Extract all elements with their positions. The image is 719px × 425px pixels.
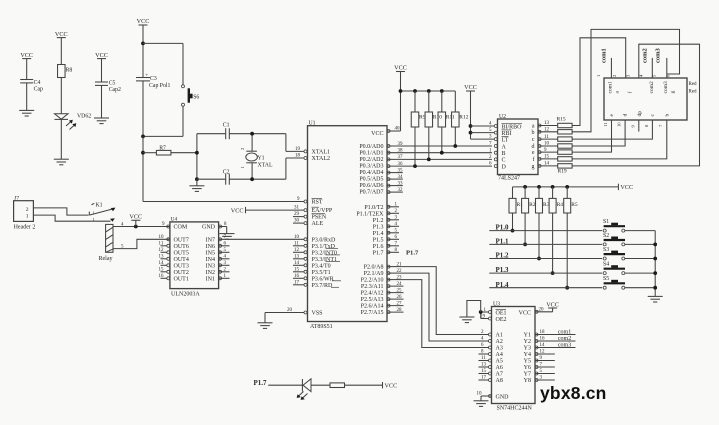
svg-text:14: 14 — [294, 261, 300, 266]
svg-text:Y1: Y1 — [524, 333, 531, 339]
svg-text:R10: R10 — [433, 115, 442, 121]
svg-text:P1.7: P1.7 — [254, 379, 268, 387]
svg-text:A5: A5 — [496, 359, 503, 365]
svg-text:EA/VPP: EA/VPP — [312, 208, 333, 214]
svg-text:VCC: VCC — [231, 207, 244, 214]
svg-text:VCC: VCC — [464, 84, 477, 91]
op-amp U3 SN74HC244N body — [492, 301, 536, 411]
svg-text:29: 29 — [294, 212, 300, 217]
svg-text:com1: com1 — [558, 329, 571, 335]
wire S6 bottom to reset node — [141, 135, 183, 139]
svg-text:BI/RBO: BI/RBO — [502, 124, 523, 130]
svg-text:R12: R12 — [459, 115, 468, 121]
svg-text:16: 16 — [540, 337, 546, 342]
svg-text:K1: K1 — [96, 202, 103, 208]
svg-text:13: 13 — [544, 121, 550, 126]
svg-text:Header 2: Header 2 — [14, 225, 36, 231]
svg-text:VCC: VCC — [371, 131, 383, 137]
svg-text:25: 25 — [397, 288, 403, 293]
resistor R9 — [411, 91, 425, 168]
svg-text:Y8: Y8 — [524, 378, 531, 384]
svg-text:74LS247: 74LS247 — [498, 176, 520, 182]
svg-text:R4: R4 — [557, 202, 564, 208]
svg-text:VCC: VCC — [620, 184, 633, 191]
svg-text:OE1: OE1 — [496, 310, 507, 316]
svg-text:R7: R7 — [159, 146, 166, 152]
svg-text:27: 27 — [397, 301, 403, 306]
svg-text:1: 1 — [26, 214, 29, 220]
power VCC (C4 branch) — [20, 52, 33, 80]
svg-text:14: 14 — [540, 343, 546, 348]
svg-text:VCC: VCC — [137, 18, 150, 25]
pin 9 RST wire — [143, 197, 307, 203]
svg-text:OUT3: OUT3 — [174, 263, 189, 269]
svg-text:10: 10 — [477, 392, 483, 397]
pins 21-28 P2 stubs — [387, 262, 404, 313]
svg-text:IN3: IN3 — [206, 263, 215, 269]
svg-text:com2: com2 — [649, 81, 655, 93]
svg-text:12: 12 — [544, 128, 550, 133]
svg-text:ULN2003A: ULN2003A — [171, 291, 200, 297]
pin 1 com1 top — [596, 74, 601, 77]
svg-text:P3.4/T0: P3.4/T0 — [312, 263, 331, 269]
svg-text:C3: C3 — [150, 76, 157, 82]
svg-text:com3: com3 — [663, 81, 669, 93]
resistor R5 — [564, 187, 578, 290]
capacitor C2 — [197, 170, 286, 185]
svg-text:9: 9 — [631, 125, 636, 128]
pins 9-16 ULN left — [159, 222, 170, 280]
pins A1-A8 inputs — [479, 330, 492, 381]
relay coil K1 Relay — [99, 224, 114, 262]
svg-text:R5: R5 — [571, 202, 578, 208]
svg-text:P0.0/AD0: P0.0/AD0 — [359, 144, 383, 150]
svg-text:34: 34 — [398, 175, 404, 180]
svg-text:R15: R15 — [557, 116, 566, 122]
svg-text:PSEN: PSEN — [312, 214, 327, 220]
ground (OE) — [459, 317, 474, 323]
svg-text:COM: COM — [174, 225, 188, 231]
svg-text:e: e — [609, 114, 615, 117]
svg-text:Cap2: Cap2 — [109, 87, 121, 93]
switch S4 — [603, 262, 655, 275]
svg-text:Cap: Cap — [34, 86, 43, 92]
svg-text:19: 19 — [295, 147, 301, 152]
svg-text:11: 11 — [544, 135, 549, 140]
resistor network R15-R19 — [557, 116, 573, 174]
pin 14 Y3 output — [535, 342, 576, 349]
wire segment f — [572, 120, 667, 159]
ground (U3 GND) — [474, 401, 489, 407]
svg-text:Red: Red — [689, 82, 698, 87]
svg-text:Red: Red — [689, 90, 698, 95]
svg-text:33: 33 — [398, 181, 404, 186]
svg-text:SN74HC244N: SN74HC244N — [497, 405, 533, 411]
pin 5 RBI wire — [471, 128, 498, 134]
pin 20 VCC wire — [535, 307, 553, 313]
svg-text:IN7: IN7 — [206, 237, 215, 243]
svg-text:13: 13 — [294, 255, 300, 260]
svg-text:U1: U1 — [309, 121, 316, 127]
svg-text:A2: A2 — [496, 339, 503, 345]
svg-text:+: + — [145, 72, 148, 78]
svg-text:S2: S2 — [603, 233, 609, 239]
svg-text:S6: S6 — [193, 94, 199, 100]
switch S3 — [603, 247, 655, 260]
svg-text:P3.6/WR: P3.6/WR — [312, 276, 334, 282]
svg-text:14: 14 — [544, 162, 550, 167]
svg-text:17: 17 — [294, 281, 300, 286]
svg-text:ALE: ALE — [312, 221, 324, 227]
svg-text:U4: U4 — [171, 217, 178, 223]
svg-text:16: 16 — [294, 274, 300, 279]
svg-text:S1: S1 — [603, 219, 609, 225]
power VCC (C5 branch) — [95, 52, 108, 82]
pins 35-32 P0.4-P0.7 stubs — [387, 168, 403, 193]
svg-text:P0.1/AD1: P0.1/AD1 — [359, 151, 383, 157]
display DS1 3-digit 7-segment — [604, 78, 697, 120]
connector J7 Header 2 — [14, 196, 36, 231]
pin 2 top stub — [611, 58, 617, 78]
svg-text:R11: R11 — [446, 115, 455, 121]
wire VCC rail (R9-R12) — [399, 89, 456, 93]
power VCC (U2 inputs) — [464, 84, 477, 139]
resistor R10 — [425, 91, 442, 161]
power VCC (relay coil) — [129, 214, 142, 227]
svg-text:com1: com1 — [600, 48, 607, 63]
svg-text:S3: S3 — [603, 247, 609, 253]
svg-text:Y3: Y3 — [524, 346, 531, 352]
svg-text:A: A — [502, 144, 507, 150]
switch S5 — [603, 276, 655, 289]
node reset-top junction — [141, 42, 183, 85]
svg-text:Y7: Y7 — [524, 372, 531, 378]
pin 9 Y5 output — [535, 356, 555, 362]
svg-text:28: 28 — [397, 308, 403, 313]
svg-text:VCC: VCC — [129, 214, 142, 221]
svg-text:P3.0/RxD: P3.0/RxD — [312, 237, 337, 243]
svg-text:C2: C2 — [223, 170, 230, 176]
power VCC (reset branch) — [137, 18, 150, 77]
svg-text:P2.7/A15: P2.7/A15 — [361, 310, 384, 316]
svg-text:LT: LT — [502, 137, 509, 143]
svg-text:OUT5: OUT5 — [174, 250, 189, 256]
svg-text:S4: S4 — [603, 262, 609, 268]
svg-text:R19: R19 — [558, 168, 567, 174]
svg-text:d: d — [532, 144, 535, 150]
pins 6-1 IN stubs — [219, 242, 230, 280]
LED (P1.7) — [297, 379, 330, 400]
svg-text:C5: C5 — [109, 81, 116, 87]
wire VCC rail (R1-R5) — [513, 185, 619, 189]
pin 31 EA wire — [246, 205, 308, 211]
resistor R2 — [522, 187, 536, 246]
wire segment a loop — [572, 38, 626, 126]
pin 3 LT wire — [471, 135, 498, 141]
svg-text:IN4: IN4 — [206, 257, 215, 263]
svg-text:C: C — [502, 158, 506, 164]
power VCC (R8 branch) — [55, 31, 68, 65]
svg-text:a: a — [615, 91, 621, 94]
svg-text:A3: A3 — [496, 346, 503, 352]
svg-text:J7: J7 — [14, 196, 19, 202]
ground (C4) — [19, 110, 34, 116]
wire segment g loop — [572, 44, 699, 166]
svg-text:com3: com3 — [558, 342, 571, 348]
svg-text:24: 24 — [397, 282, 403, 287]
svg-text:12: 12 — [294, 248, 300, 253]
pin 11 bottom stub — [603, 121, 608, 126]
resistor R11 — [438, 91, 455, 155]
wire switches common — [653, 231, 657, 297]
svg-text:11: 11 — [603, 121, 608, 126]
wire P0.0-P0.3 bus to U2 — [387, 142, 492, 168]
svg-text:P1.1/T2EX: P1.1/T2EX — [356, 211, 384, 217]
wire segment d — [572, 120, 625, 146]
svg-text:U2: U2 — [499, 114, 506, 120]
svg-text:c: c — [650, 114, 656, 117]
ground (crystal) — [189, 186, 204, 192]
svg-text:VCC: VCC — [385, 382, 398, 389]
svg-text:dp: dp — [637, 111, 643, 117]
svg-text:12: 12 — [540, 350, 546, 355]
net label P1.7 (at pin 8) — [406, 250, 419, 257]
svg-text:1: 1 — [240, 166, 245, 169]
wire XTAL2 — [286, 153, 307, 159]
svg-text:30: 30 — [294, 218, 300, 223]
svg-text:A6: A6 — [496, 365, 503, 371]
svg-text:32: 32 — [398, 188, 404, 193]
svg-text:A1: A1 — [496, 333, 503, 339]
svg-text:e: e — [532, 150, 535, 156]
resistor R8 — [58, 65, 73, 114]
svg-text:OUT6: OUT6 — [174, 244, 189, 250]
svg-text:VCC: VCC — [55, 31, 68, 38]
svg-text:C1: C1 — [223, 123, 230, 129]
svg-text:D: D — [502, 164, 507, 170]
pin 7 Y6 output — [535, 363, 555, 369]
svg-text:P0.6/AD6: P0.6/AD6 — [359, 183, 383, 189]
svg-text:OUT2: OUT2 — [174, 270, 189, 276]
net label P1.1 row — [489, 238, 602, 246]
svg-text:R8: R8 — [66, 68, 73, 74]
wire coil pin4 to COM — [113, 222, 170, 228]
svg-text:OUT7: OUT7 — [174, 237, 189, 243]
pin 3 Y8 output — [535, 376, 555, 382]
svg-text:P3.1/TxD: P3.1/TxD — [312, 244, 336, 250]
resistor (LED series) — [330, 383, 383, 388]
pin 6 top stub — [665, 58, 670, 78]
svg-text:b: b — [665, 114, 671, 117]
svg-text:P2.6/A14: P2.6/A14 — [361, 304, 384, 310]
svg-text:d: d — [623, 114, 629, 117]
svg-text:Y2: Y2 — [524, 339, 531, 345]
ground (ULN GND) — [220, 234, 235, 240]
svg-text:P3.7/RD: P3.7/RD — [312, 283, 334, 289]
pin 18 Y1 output — [535, 329, 576, 336]
pin 29 PSEN stub — [293, 212, 307, 218]
pin 16 Y2 output — [535, 336, 576, 343]
svg-text:10: 10 — [617, 122, 622, 127]
pin 20 VSS wire — [265, 308, 307, 323]
svg-text:OUT1: OUT1 — [174, 276, 189, 282]
ground (switches) — [648, 296, 663, 302]
pin 3 top stub — [625, 74, 630, 77]
svg-text:S5: S5 — [603, 276, 609, 282]
wire P2.1/A9 to U3 A2 — [399, 273, 489, 341]
svg-text:36: 36 — [398, 162, 404, 167]
svg-text:P1.2: P1.2 — [373, 218, 384, 224]
LED VD62 — [55, 114, 92, 160]
svg-text:P3.2/INT0: P3.2/INT0 — [312, 250, 338, 256]
svg-text:P2.0/A8: P2.0/A8 — [364, 265, 384, 271]
svg-text:2: 2 — [612, 74, 617, 77]
svg-text:2: 2 — [240, 147, 245, 150]
op-amp U2 74LS247 body — [498, 114, 539, 182]
svg-text:8: 8 — [644, 124, 649, 127]
svg-text:IN2: IN2 — [206, 270, 215, 276]
svg-text:XTAL: XTAL — [258, 163, 273, 169]
net label P1.3 row — [489, 266, 602, 274]
wire XTAL right rail — [285, 134, 287, 180]
svg-text:C4: C4 — [34, 80, 41, 86]
svg-text:b: b — [532, 130, 535, 136]
pin 30 ALE stub — [293, 218, 307, 224]
pin 4 top stub — [638, 74, 643, 77]
svg-text:P2.5/A13: P2.5/A13 — [361, 297, 384, 303]
resistor R7 — [143, 146, 197, 156]
svg-text:P0.5/AD5: P0.5/AD5 — [359, 177, 383, 183]
svg-text:P2.2/A10: P2.2/A10 — [361, 278, 384, 284]
pin 8 GND wire — [219, 222, 227, 233]
pins 10-17 P3 stubs — [293, 235, 307, 286]
svg-text:35: 35 — [398, 168, 404, 173]
svg-text:R1: R1 — [517, 202, 524, 208]
pins 1-8 P1 stubs — [387, 203, 399, 254]
svg-text:com3: com3 — [655, 47, 662, 63]
wire coil pin5 to OUT7 — [113, 239, 170, 249]
pin 7 IN7 wire — [219, 235, 307, 241]
svg-text:OUT4: OUT4 — [174, 257, 189, 263]
switch S6 — [182, 85, 200, 137]
svg-text:com2: com2 — [558, 336, 571, 342]
svg-text:26: 26 — [397, 295, 403, 300]
svg-text:A8: A8 — [496, 378, 503, 384]
svg-text:f: f — [533, 156, 535, 163]
svg-text:31: 31 — [294, 205, 300, 210]
svg-text:VCC: VCC — [394, 65, 407, 72]
svg-text:P0.4/AD4: P0.4/AD4 — [359, 170, 383, 176]
svg-text:A4: A4 — [496, 352, 503, 358]
svg-text:1: 1 — [93, 210, 96, 215]
svg-text:Cap Pol1: Cap Pol1 — [149, 83, 171, 89]
svg-text:ybx8.cn: ybx8.cn — [540, 383, 607, 403]
svg-text:IN5: IN5 — [206, 250, 215, 256]
svg-text:39: 39 — [398, 142, 404, 147]
svg-text:B: B — [502, 151, 506, 157]
svg-text:P1.3: P1.3 — [373, 224, 384, 230]
svg-text:11: 11 — [294, 242, 299, 247]
wire J7 pin2 to K1 — [33, 208, 88, 215]
svg-text:g: g — [670, 91, 676, 94]
capacitor C5 — [95, 81, 121, 119]
net label com1 (display) — [600, 48, 607, 63]
net label P1.4 row — [489, 281, 602, 289]
svg-text:1: 1 — [596, 74, 601, 77]
power VCC (pin40/R9-R12) — [394, 65, 407, 72]
power VCC (U3) — [546, 302, 559, 309]
svg-text:P1.4: P1.4 — [373, 231, 384, 237]
svg-text:U3: U3 — [493, 301, 500, 307]
svg-text:P1.6: P1.6 — [373, 244, 384, 250]
capacitor C3 — [136, 72, 171, 136]
svg-text:OE2: OE2 — [496, 317, 507, 323]
svg-text:Y1: Y1 — [258, 155, 265, 161]
svg-text:VCC: VCC — [20, 52, 33, 59]
svg-text:10: 10 — [159, 235, 165, 240]
svg-text:P0.2/AD2: P0.2/AD2 — [359, 157, 383, 163]
resistor R4 — [549, 187, 563, 275]
op-amp U1 MCU AT89S51 body — [308, 121, 388, 330]
svg-text:XTAL2: XTAL2 — [312, 156, 331, 162]
wire P2.2/A10 to U3 A3 — [399, 280, 489, 348]
power VCC (LED) — [383, 382, 398, 389]
svg-text:IN6: IN6 — [206, 244, 215, 250]
pin 40 VCC wire — [387, 72, 401, 133]
svg-text:IN1: IN1 — [206, 276, 215, 282]
pin 12 Y4 output — [535, 350, 555, 356]
wire segment c — [572, 120, 652, 139]
svg-text:18: 18 — [540, 330, 546, 335]
svg-text:7: 7 — [658, 124, 663, 127]
op-amp U4 ULN2003A body — [170, 217, 219, 298]
svg-text:P1.7: P1.7 — [373, 250, 384, 256]
pins 7,1,2,6 ABCD inputs — [489, 142, 497, 168]
svg-text:VCC: VCC — [546, 302, 559, 309]
svg-text:RST: RST — [312, 199, 323, 205]
pin 4 BI/RBO wire — [471, 122, 498, 128]
svg-text:P3.5/T1: P3.5/T1 — [312, 270, 331, 276]
svg-text:XTAL1: XTAL1 — [312, 149, 331, 155]
pin 5 top stub — [651, 58, 656, 78]
svg-text:AT89S51: AT89S51 — [310, 324, 333, 330]
svg-text:Relay: Relay — [99, 256, 113, 262]
svg-text:com2: com2 — [641, 48, 648, 63]
svg-text:20: 20 — [539, 307, 545, 312]
svg-text:c: c — [532, 137, 535, 143]
switch S2 — [603, 233, 655, 246]
svg-text:RBI: RBI — [502, 131, 512, 137]
ground (C5) — [94, 118, 109, 124]
svg-text:a: a — [532, 124, 535, 130]
svg-text:P3.3/INT1: P3.3/INT1 — [312, 257, 338, 263]
pin 8 bottom stub — [644, 124, 649, 127]
svg-text:20: 20 — [287, 308, 293, 313]
wire XTAL left rail — [195, 134, 199, 186]
svg-text:38: 38 — [398, 149, 404, 154]
wire segment b loop — [572, 29, 679, 131]
svg-text:com1: com1 — [608, 81, 614, 93]
resistor R12 — [452, 91, 469, 148]
pin 7 bottom stub — [658, 124, 663, 127]
pin 10 bottom stub — [617, 122, 622, 127]
svg-text:VCC: VCC — [519, 310, 531, 316]
svg-text:GND: GND — [496, 394, 510, 400]
svg-text:10: 10 — [544, 142, 550, 147]
svg-text:15: 15 — [294, 268, 300, 273]
watermark ybx8.cn — [540, 383, 607, 403]
svg-text:40: 40 — [395, 127, 401, 132]
